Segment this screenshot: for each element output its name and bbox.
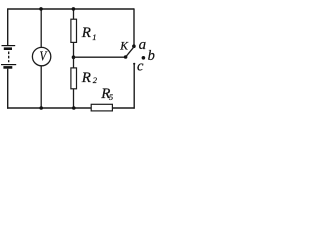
wire: left rail upper (to battery) — [7, 8, 9, 45]
wire: voltmeter branch upper — [40, 9, 42, 48]
battery B2 plate - (short thick) — [3, 66, 12, 69]
wire: bottom rail left segment — [7, 107, 91, 109]
background — [0, 0, 161, 117]
node: bottom wire / voltmeter junction — [39, 106, 43, 110]
svg-text:R: R — [81, 70, 91, 86]
battery dashed link (more cells) — [8, 52, 10, 63]
switch K arm — [126, 47, 134, 57]
battery B1 plate - (short thick) — [4, 47, 12, 50]
wire: left rail lower — [7, 69, 9, 109]
node: R1/R2 mid junction — [72, 55, 76, 59]
node: bottom wire / R2 junction — [72, 106, 76, 110]
svg-text:K: K — [119, 40, 129, 52]
voltmeter V — [32, 47, 50, 65]
svg-text:b: b — [148, 48, 155, 64]
svg-text:V: V — [40, 48, 48, 63]
resistor R2 — [71, 68, 77, 89]
svg-text:c: c — [137, 59, 144, 75]
node: contact b — [142, 56, 146, 60]
wire: right rail upper (top rail to contact a) — [133, 8, 135, 45]
svg-text:5: 5 — [109, 92, 113, 102]
battery B2 plate + (long) — [1, 64, 16, 66]
svg-text:a: a — [139, 37, 147, 53]
wire: voltmeter branch lower — [40, 66, 42, 108]
wire: bottom rail right segment — [112, 107, 134, 109]
resistor R1 — [71, 19, 77, 42]
node: top wire / R1 junction — [72, 7, 76, 11]
node: top wire / voltmeter junction — [39, 7, 43, 11]
wire: mid node down to R2 — [73, 57, 75, 68]
battery B1 plate + (long) — [2, 45, 16, 47]
wire: R2 to bottom rail — [73, 89, 75, 108]
wire: mid node to switch pole — [74, 56, 126, 58]
wire: R1 to mid node — [73, 42, 75, 57]
node: switch pole pivot — [124, 55, 128, 59]
node: contact c (top of lower right rail) — [133, 63, 135, 65]
svg-text:1: 1 — [92, 32, 96, 42]
svg-text:R: R — [81, 25, 91, 41]
svg-text:2: 2 — [93, 75, 98, 85]
wire: top rail — [8, 8, 135, 10]
node: contact a — [132, 44, 136, 48]
resistor R5 — [91, 104, 112, 111]
wire: R1 branch from top rail — [73, 9, 75, 20]
wire: right rail lower (contact c to bottom rail) — [133, 64, 135, 109]
